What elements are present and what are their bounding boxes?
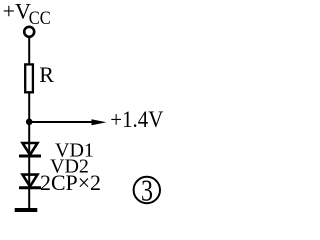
- arrow head output: [92, 119, 107, 125]
- ground: [15, 208, 38, 212]
- figure number 3: [134, 173, 160, 208]
- svg-text:CC: CC: [29, 8, 51, 29]
- resistor R: [25, 64, 33, 92]
- diode VD2: [19, 175, 41, 188]
- wire VD2 to ground: [28, 188, 30, 209]
- diode VD1: [19, 143, 41, 156]
- wire VD1 to VD2: [28, 157, 30, 187]
- wire resistor to node A: [28, 93, 30, 123]
- svg-text:+V: +V: [3, 0, 31, 24]
- svg-text:R: R: [39, 62, 54, 87]
- svg-text:2CP×2: 2CP×2: [40, 170, 101, 195]
- terminal +VCC: [24, 27, 34, 37]
- wire node A to output arrow: [29, 121, 93, 123]
- svg-text:3: 3: [141, 173, 153, 208]
- node A junction dot: [26, 119, 33, 126]
- svg-text:+1.4V: +1.4V: [110, 107, 163, 132]
- wire terminal to resistor: [28, 38, 30, 65]
- wire node A to diode VD1: [28, 122, 30, 156]
